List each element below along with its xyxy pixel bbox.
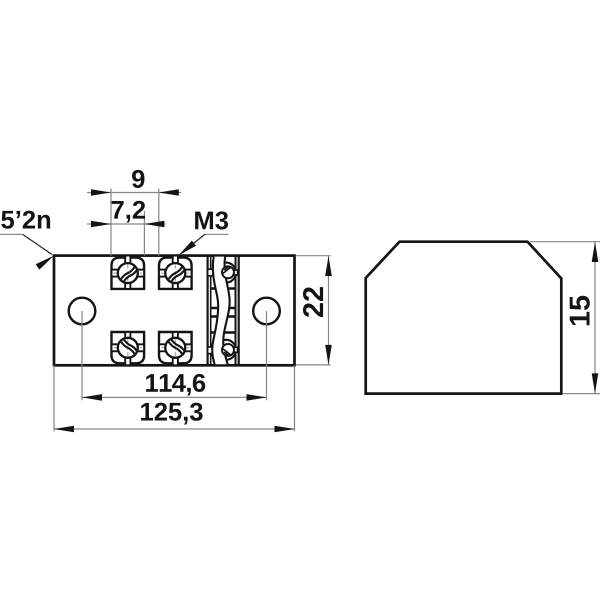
dimension 114,6 text bbox=[146, 374, 205, 396]
dimension 7,2 text bbox=[112, 201, 145, 223]
dimension 15 text bbox=[570, 296, 590, 325]
dimension 22 extension line top bbox=[296, 255, 331, 257]
dimension 9 extension line right bbox=[158, 189, 160, 256]
dimension 9 line bbox=[87, 192, 181, 194]
dimension 9 arrow right bbox=[159, 189, 179, 196]
dimension 125,3 extension line right bbox=[294, 365, 296, 431]
dimension 125,3 text bbox=[141, 403, 203, 425]
dimension 7,2 line bbox=[87, 223, 166, 225]
dimension 15 arrow bottom bbox=[592, 373, 599, 393]
resistive element: side tabs left bbox=[208, 269, 214, 276]
label 5'2n text bbox=[1, 211, 50, 229]
dimension 15 extension line top bbox=[530, 241, 600, 243]
resistive element: wavy strip bbox=[212, 256, 229, 366]
dimension 9 extension line left bbox=[110, 189, 112, 256]
label 5'2n underline bbox=[0, 233, 23, 235]
resistive element: bottom screw recess bbox=[216, 340, 236, 360]
dimension 114,6 line bbox=[82, 396, 267, 398]
resistive element: top screw recess bbox=[216, 263, 236, 283]
label 5'2n leader bbox=[23, 234, 52, 254]
label M3 leader bbox=[181, 234, 205, 253]
clamp B2 (bottom-right) bbox=[159, 332, 192, 365]
dimension 7,2 arrow left bbox=[91, 221, 111, 228]
dimension 7,2 arrow right bbox=[144, 221, 164, 228]
dimension 125,3 extension line left bbox=[53, 365, 55, 431]
clamp A1 (top-left) bbox=[112, 256, 145, 289]
label M3 leader arrow bbox=[176, 241, 196, 259]
dimension 125,3 arrow right bbox=[275, 426, 295, 433]
resistive element: right wall bbox=[235, 256, 237, 366]
dimension 114,6 arrow right bbox=[247, 394, 267, 401]
label M3 text bbox=[195, 211, 228, 229]
dimension 114,6 extension line left bbox=[81, 311, 83, 400]
dimension 22 line bbox=[328, 256, 330, 365]
dimension 114,6 extension line right bbox=[266, 311, 268, 400]
dimension 22 arrow top bbox=[325, 256, 332, 276]
clamp A2 (top-right) bbox=[159, 256, 192, 289]
dimension 125,3 line bbox=[54, 428, 295, 430]
dimension 22 extension line bottom bbox=[296, 364, 331, 366]
dimension 15 line bbox=[594, 242, 596, 393]
clamp B1 (bottom-left) bbox=[112, 332, 145, 365]
side view outline bbox=[366, 242, 562, 394]
mounting hole left bbox=[69, 298, 96, 325]
label M3 underline bbox=[205, 233, 229, 235]
resistive element: bottom screw bbox=[233, 347, 238, 352]
label 5'2n leader arrow bbox=[36, 253, 56, 270]
resistive element: rungs bbox=[211, 271, 236, 350]
part outline (top view) bbox=[54, 256, 295, 366]
dimension 9 arrow left bbox=[91, 189, 111, 196]
mounting hole right bbox=[253, 298, 280, 325]
resistive element: top screw bbox=[233, 270, 238, 275]
dimension 22 arrow bottom bbox=[325, 345, 332, 365]
dimension 22 text bbox=[303, 287, 323, 317]
dimension 7,2 extension line bbox=[143, 211, 145, 256]
resistive element: left wall bbox=[207, 256, 209, 366]
dimension 15 arrow top bbox=[592, 242, 599, 262]
dimension 9 text bbox=[132, 170, 144, 188]
dimension 125,3 arrow left bbox=[54, 426, 74, 433]
dimension 114,6 arrow left bbox=[82, 394, 102, 401]
dimension 15 extension line bottom bbox=[563, 393, 600, 395]
